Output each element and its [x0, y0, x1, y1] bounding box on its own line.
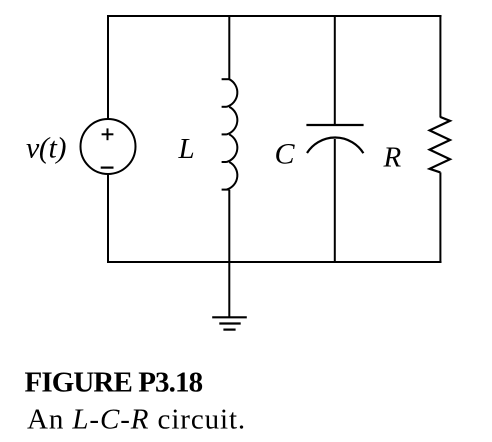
minus polarity mark: [101, 167, 114, 169]
svg-text:L: L: [178, 133, 195, 165]
svg-text:An L-C-R circuit.: An L-C-R circuit.: [27, 404, 246, 436]
plus polarity mark: [102, 128, 114, 140]
svg-text:C: C: [275, 137, 296, 170]
svg-text:v(t): v(t): [26, 132, 66, 165]
svg-text:FIGURE P3.18: FIGURE P3.18: [25, 366, 203, 398]
wire right branch upper: [439, 15, 441, 118]
wire left branch lower: [107, 174, 109, 263]
svg-text:R: R: [383, 141, 402, 173]
wire top rail: [107, 15, 442, 17]
wire ground stub: [228, 262, 230, 317]
wire inductor branch lower: [228, 190, 230, 262]
capacitor C: [306, 125, 363, 153]
inductor L: [222, 79, 238, 189]
voltage source V1 circle: [81, 119, 136, 174]
wire left branch upper: [107, 15, 109, 120]
resistor R: [430, 117, 450, 172]
wire bottom rail: [107, 261, 442, 263]
wire capacitor branch lower: [334, 139, 336, 262]
wire inductor branch upper: [228, 15, 230, 80]
wire right branch lower: [439, 172, 441, 263]
ground: [212, 317, 247, 329]
wire capacitor branch upper: [334, 15, 336, 126]
